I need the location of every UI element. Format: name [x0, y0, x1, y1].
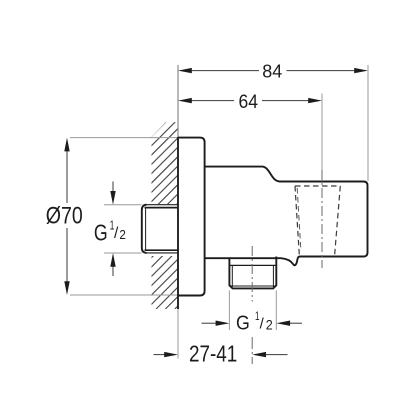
flange (escutcheon O70) — [178, 138, 205, 296]
svg-text:84: 84 — [262, 60, 282, 81]
svg-text:27-41: 27-41 — [189, 341, 237, 367]
svg-text:G: G — [236, 313, 250, 335]
dimension G1/2 left — [104, 204, 142, 206]
wall face line — [177, 65, 179, 137]
body outline — [205, 167, 368, 266]
inlet nipple G1/2 — [142, 205, 178, 253]
svg-text:64: 64 — [239, 91, 259, 113]
dimension O70 — [70, 137, 177, 139]
holder cone dashed — [295, 186, 340, 257]
dimension 84 — [190, 70, 356, 72]
dimension 64 — [190, 100, 310, 102]
wall hatch — [0, 122, 362, 309]
outlet nipple G1/2 — [229, 257, 276, 289]
svg-text:Ø70: Ø70 — [46, 203, 83, 230]
dimension 27-41 — [154, 354, 165, 356]
svg-text:G: G — [94, 220, 108, 246]
centerline outlet x=252 — [251, 246, 253, 302]
svg-text:2: 2 — [119, 227, 126, 242]
svg-text:/: / — [114, 225, 119, 242]
centerline holder x=322 — [321, 94, 323, 171]
svg-text:/: / — [260, 315, 265, 332]
dimension G1/2 bottom — [228, 291, 230, 331]
svg-text:2: 2 — [266, 317, 273, 333]
